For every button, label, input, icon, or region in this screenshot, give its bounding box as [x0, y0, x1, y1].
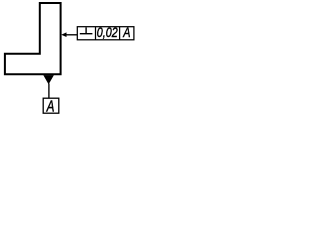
frame divider 1 — [95, 27, 97, 40]
leader wire from frame to arrow — [65, 34, 78, 36]
frame divider 2 — [119, 27, 121, 40]
feature control frame — [77, 27, 134, 40]
datum leader wire — [48, 84, 50, 99]
datum letter box — [43, 98, 59, 113]
datum triangle on bottom face — [43, 75, 54, 84]
perpendicularity symbol — [80, 27, 93, 33]
svg-text:A: A — [46, 99, 55, 116]
leader arrowhead — [61, 32, 66, 37]
svg-text:0,02: 0,02 — [97, 25, 118, 41]
svg-text:A: A — [123, 25, 131, 41]
part outline (L-shaped workpiece) — [5, 3, 61, 74]
